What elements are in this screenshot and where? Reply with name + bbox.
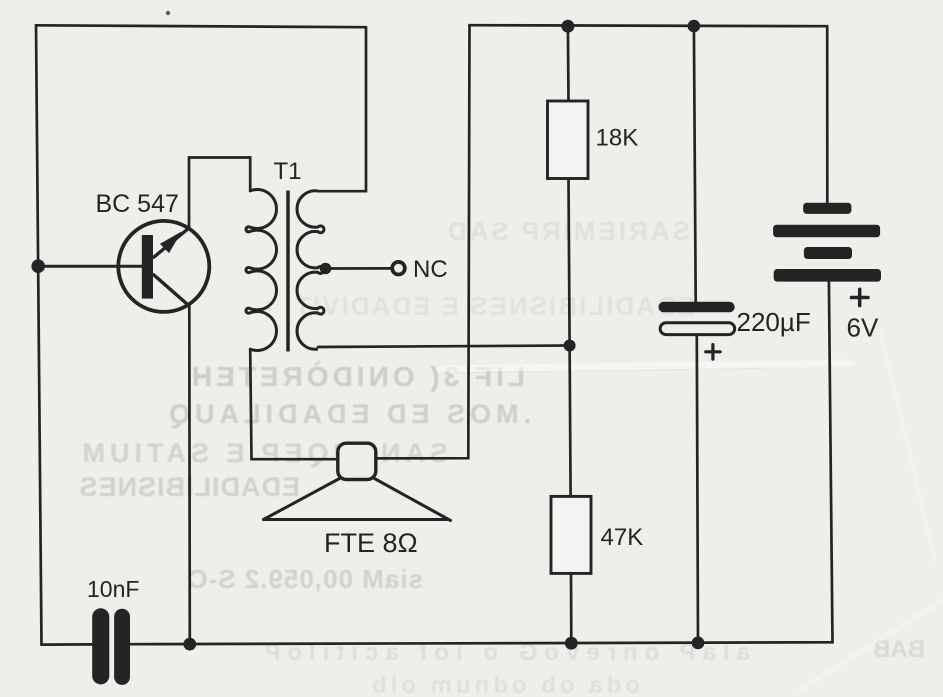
wire base bbox=[38, 265, 142, 268]
svg-text:6V: 6V bbox=[847, 313, 879, 343]
transistor Q1 BC547 circle bbox=[118, 221, 209, 312]
wire speaker right to top rail bbox=[375, 25, 470, 458]
wire left rail bbox=[36, 25, 42, 644]
terminal NC bbox=[392, 262, 405, 275]
ghost bleed-through text (mirrored print from reverse page) bbox=[0, 0, 1, 1]
transformer T1 primary winding bbox=[246, 190, 277, 351]
battery B1 plate 3 bbox=[804, 247, 852, 259]
capacitor C1 10nF left plate bbox=[92, 608, 109, 684]
svg-text:BC 547: BC 547 bbox=[96, 190, 179, 218]
svg-text:siaM 00,059.2 S-C: siaM 00,059.2 S-C bbox=[188, 564, 423, 594]
wire NC tap bbox=[326, 267, 392, 270]
wire top-left drop to secondary bbox=[318, 27, 366, 191]
svg-text:18K: 18K bbox=[596, 125, 639, 152]
wire divider node to 47K bbox=[570, 346, 571, 497]
wire battery top bbox=[826, 26, 829, 203]
speaker FTE frame bbox=[338, 443, 376, 479]
wire 47K to bottom rail bbox=[570, 573, 573, 643]
transformer T1 core bbox=[286, 191, 290, 352]
wire battery bottom to corner bbox=[829, 282, 833, 643]
node top rail C2 bbox=[688, 20, 701, 33]
wire top right rail bbox=[470, 25, 828, 26]
battery plus sign bbox=[851, 289, 868, 305]
resistor R1 18K bbox=[548, 101, 589, 179]
wire collector riser bbox=[189, 158, 250, 229]
svg-text:FTE 8Ω: FTE 8Ω bbox=[324, 528, 418, 558]
speaker FTE cone bbox=[264, 479, 451, 521]
wire top-left rail bbox=[36, 25, 366, 27]
node C2 bottom rail bbox=[692, 637, 705, 650]
transistor Q1 base bar bbox=[142, 235, 153, 299]
svg-text:NC: NC bbox=[413, 256, 448, 283]
resistor R2 47K bbox=[551, 496, 591, 573]
wire 18K branch bbox=[567, 26, 570, 101]
svg-text:oda ob odnum olb: oda ob odnum olb bbox=[368, 672, 640, 697]
transformer T1 secondary winding bbox=[297, 191, 324, 349]
battery B1 plate 1 bbox=[803, 203, 851, 214]
transistor Q1 emitter lead bbox=[153, 274, 190, 306]
capacitor C1 10nF right plate bbox=[114, 609, 130, 685]
svg-text:47K: 47K bbox=[601, 524, 644, 551]
svg-text:SANEUQEP E SATIUM: SANEUQEP E SATIUM bbox=[77, 438, 448, 468]
node secondary tap bbox=[320, 263, 332, 275]
wire emitter drop bbox=[188, 305, 191, 644]
wire bottom rail right of C1 bbox=[130, 642, 833, 644]
svg-text:.MOS ED EDADILAUQ: .MOS ED EDADILAUQ bbox=[164, 399, 531, 429]
node emitter/bottom rail bbox=[183, 638, 196, 651]
battery B1 plate 2 bbox=[773, 225, 880, 238]
svg-text:EDADILIBISNES E EDADIVIT: EDADILIBISNES E EDADIVIT bbox=[293, 291, 695, 321]
wire secondary bottom to divider node bbox=[318, 346, 570, 348]
transistor Q1 collector arrow bbox=[160, 232, 182, 254]
svg-text:10nF: 10nF bbox=[87, 576, 139, 602]
ink speck bbox=[166, 11, 170, 15]
wire bottom rail left of C1 bbox=[42, 643, 93, 646]
svg-text:T1: T1 bbox=[274, 158, 302, 185]
wire 18K to divider node bbox=[569, 179, 570, 346]
node top rail R1 bbox=[561, 20, 574, 33]
node base junction bbox=[31, 259, 45, 273]
capacitor C2 220uF bottom plate bbox=[660, 323, 735, 335]
svg-text:220µF: 220µF bbox=[737, 307, 811, 337]
capacitor C2 plus sign bbox=[706, 345, 721, 360]
transistor Q1 collector lead bbox=[153, 228, 189, 258]
wire 220uF bottom bbox=[697, 335, 698, 643]
node 47K bottom rail bbox=[565, 637, 578, 650]
capacitor C2 220uF top plate bbox=[659, 302, 735, 313]
paper crease streaks bbox=[440, 330, 943, 690]
node divider junction bbox=[564, 340, 576, 352]
battery B1 plate 4 bbox=[774, 269, 881, 282]
wire primary bottom to speaker left bbox=[250, 349, 337, 459]
wire 220uF top bbox=[694, 26, 696, 302]
